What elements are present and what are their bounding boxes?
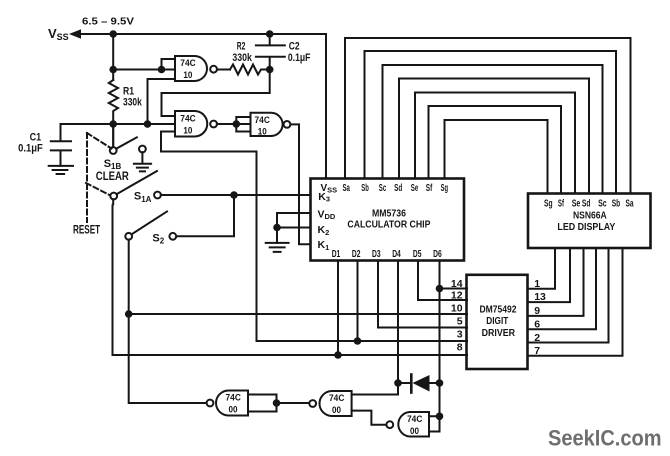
gate U2c 74C00 NAND (mirrored) [398, 412, 429, 437]
label C2 value 0.1uF [288, 52, 311, 64]
label S2 [152, 232, 164, 245]
wire VDD stub to ground node [277, 213, 311, 228]
wire gate1 input line [113, 69, 175, 71]
wire S1A to K3 [161, 194, 311, 196]
svg-text:DIGIT: DIGIT [486, 316, 508, 327]
svg-text:K2: K2 [318, 224, 330, 237]
svg-text:3: 3 [457, 329, 463, 341]
wire gate1 bottom input to 124-rail [148, 79, 176, 124]
gate U1c 74C10 NAND [251, 113, 283, 136]
diode D1 blanking [410, 375, 413, 393]
svg-text:Se: Se [572, 198, 581, 210]
node junction R1/gate input [109, 66, 117, 74]
node VSS label [48, 26, 69, 42]
node junction VSS/R1 [109, 30, 117, 38]
svg-text:Sb: Sb [612, 198, 620, 210]
svg-text:10: 10 [451, 303, 463, 315]
wire U2c input wrap to D6 [429, 416, 440, 431]
gate U1b 74C10 NAND [175, 111, 207, 137]
svg-text:10: 10 [183, 70, 192, 80]
switch S1B blade [116, 137, 137, 149]
svg-text:14: 14 [451, 278, 463, 290]
wire S2 riser [176, 195, 234, 236]
wire K2 stub [277, 228, 311, 243]
wire pin3 rail [257, 340, 468, 342]
wire segment loop Sc [383, 65, 603, 194]
label CLEAR [96, 169, 129, 183]
wire pin14 stub [440, 288, 468, 290]
svg-text:Sa: Sa [626, 198, 634, 210]
svg-text:8: 8 [457, 342, 463, 354]
svg-text:Sf: Sf [558, 198, 564, 210]
node junction S2/pin10 [125, 310, 133, 318]
svg-text:74C: 74C [180, 58, 196, 68]
gate U2a 74C00 NAND (mirrored) [216, 391, 248, 416]
svg-text:SeekIC.com: SeekIC.com [548, 426, 662, 451]
svg-text:74C: 74C [407, 414, 423, 424]
pin numbers right 1 13 9 6 2 7 [534, 278, 546, 357]
wire D3 to pin5 [378, 261, 467, 328]
resistor R1 [109, 80, 118, 147]
label R1 [123, 86, 134, 98]
svg-text:LED DISPLAY: LED DISPLAY [557, 221, 615, 233]
svg-text:74C: 74C [329, 393, 345, 403]
wire U2b out to U2a [277, 402, 310, 404]
svg-text:DM75492: DM75492 [480, 305, 517, 316]
switch S2 pivot [125, 233, 132, 240]
svg-text:D2: D2 [352, 248, 361, 260]
svg-text:CLEAR: CLEAR [96, 169, 129, 183]
svg-text:K1: K1 [318, 239, 330, 252]
wire driver pin13 to LED [528, 248, 571, 302]
wire U2a input wrap [248, 395, 277, 412]
wire D1 [337, 261, 339, 356]
watermark SeekIC.com [548, 426, 662, 451]
svg-text:Sf: Sf [426, 182, 433, 194]
svg-text:74C: 74C [226, 393, 242, 403]
svg-text:D5: D5 [413, 248, 422, 260]
switch S2 throw contact [169, 233, 176, 240]
gate U2c 74C00 output bubble [386, 421, 393, 428]
wire gate3 out to K1 [290, 124, 310, 244]
svg-text:Sg: Sg [441, 182, 448, 194]
svg-text:Sc: Sc [598, 198, 607, 210]
node junction S1A/S2 [230, 191, 238, 199]
pin numbers left 14 12 10 5 3 8 [451, 278, 463, 354]
svg-text:Sg: Sg [544, 198, 553, 210]
wire driver pin9 to LED [528, 248, 584, 316]
node junction D6/pin14 [436, 285, 444, 293]
wire U2b input1 to D4 node [352, 383, 398, 395]
label R1 value 330k [123, 97, 142, 109]
svg-text:Sb: Sb [361, 182, 369, 194]
label S1A [134, 191, 152, 204]
wire driver pin6 to LED [528, 248, 597, 329]
switch S1A pivot [110, 193, 117, 200]
wire S1B pivot stem [112, 124, 114, 147]
node junction R2/C2 [266, 66, 274, 74]
wire pin10 rail [129, 313, 467, 315]
label C2 [289, 40, 300, 52]
wire driver pin2 to LED [528, 248, 609, 343]
node junction D6/diode [436, 379, 444, 387]
wire D2 [357, 261, 359, 342]
chip U4 DM75492 digit driver [467, 275, 528, 369]
node junction gate3 tied inputs [233, 120, 241, 128]
wire S1A pivot down to pin8 rail [113, 199, 468, 355]
label R2 value 330k [232, 52, 252, 64]
label R2 [237, 40, 246, 52]
gate U2b 74C00 output bubble [309, 400, 316, 407]
chip U5 NSN66A LED display [528, 194, 651, 249]
label S1B [104, 158, 122, 171]
capacitor C1 [51, 124, 71, 166]
svg-text:10: 10 [183, 126, 192, 136]
node junction 124-rail / S1B branch [109, 120, 117, 128]
svg-text:D3: D3 [372, 248, 381, 260]
svg-text:Sd: Sd [582, 198, 591, 210]
svg-text:00: 00 [229, 405, 238, 415]
wire U2b input2 to U2c out [352, 411, 387, 425]
node junction K2 ground [273, 224, 281, 232]
wire D4 down to gate B input [352, 261, 398, 395]
node junction U2c inputs/D6 [436, 413, 444, 421]
svg-text:S2: S2 [152, 232, 164, 245]
wire gate3 input wrap [236, 117, 250, 132]
wire segment loop Sa [345, 38, 631, 194]
switch S1B pivot [110, 147, 117, 154]
gate U1a 74C10 NAND [175, 56, 207, 81]
svg-text:0.1μF: 0.1μF [18, 142, 43, 154]
svg-text:0.1μF: 0.1μF [288, 52, 311, 64]
svg-text:330k: 330k [232, 52, 252, 64]
wire D5 to pin12 [418, 261, 467, 301]
svg-text:5: 5 [457, 315, 463, 327]
chip U3 MM5736 calculator [311, 179, 465, 261]
svg-text:74C: 74C [180, 114, 196, 124]
svg-text:Sc: Sc [379, 182, 386, 194]
svg-text:330k: 330k [123, 97, 142, 109]
label C1 [30, 132, 41, 144]
wire segment loop Se [415, 93, 575, 194]
svg-text:D4: D4 [392, 248, 401, 260]
svg-text:D6: D6 [433, 248, 442, 260]
wire driver pin1 to LED [528, 248, 556, 289]
label 6.5 - 9.5V [82, 17, 135, 28]
wire segment loop Sd [399, 79, 589, 194]
svg-text:VSS: VSS [48, 26, 69, 42]
ground K2/VDD [266, 243, 289, 252]
switch S1B throw contact [139, 146, 146, 153]
gate U2b 74C00 NAND (mirrored) [320, 391, 352, 416]
linkage dashed vertical RESET [86, 133, 88, 222]
ground S1B [134, 152, 151, 171]
wire driver pin7 to LED [528, 248, 623, 356]
capacitor C2 [256, 34, 285, 70]
wire R1 top branch [112, 34, 114, 80]
ground C1 [49, 166, 73, 174]
svg-text:RESET: RESET [73, 222, 101, 236]
wire gate2 bottom input long feedback [161, 132, 257, 342]
svg-text:6.5 – 9.5V: 6.5 – 9.5V [82, 17, 135, 28]
node junction gate1 tied inputs [158, 66, 166, 74]
wire segment loop Sg [445, 120, 548, 194]
switch S1A blade [117, 171, 158, 194]
label RESET [73, 222, 101, 236]
wire 124-rail [61, 123, 176, 125]
svg-text:12: 12 [451, 290, 463, 302]
node junction D4/diode [394, 379, 402, 387]
wire segment loop Sf [429, 106, 562, 194]
svg-text:Sa: Sa [343, 182, 350, 194]
svg-text:Se: Se [411, 182, 419, 194]
svg-text:C2: C2 [289, 40, 300, 52]
node junction U2a inputs [273, 399, 281, 407]
node junction D2/pin3 [354, 337, 362, 345]
svg-text:D1: D1 [332, 248, 341, 260]
svg-text:DRIVER: DRIVER [482, 328, 516, 339]
node junction gate1 input on 124-rail [144, 120, 152, 128]
power VSS arrow [69, 29, 81, 39]
wire gate1 input wrap [162, 59, 176, 70]
wire VSS rail [79, 34, 326, 179]
svg-text:CALCULATOR CHIP: CALCULATOR CHIP [347, 218, 430, 230]
svg-text:Sd: Sd [394, 182, 402, 194]
svg-text:00: 00 [410, 426, 419, 436]
linkage dashed to S1A [86, 183, 112, 196]
svg-text:S1A: S1A [134, 191, 152, 204]
wire S2 pivot down to gate A output [129, 240, 207, 403]
svg-text:74C: 74C [255, 115, 271, 125]
resistor R2 [230, 65, 270, 75]
svg-text:00: 00 [332, 405, 341, 415]
switch S2 blade [132, 212, 168, 235]
switch S1A throw contact [154, 192, 161, 199]
wire gate2 out to gate3 [217, 123, 251, 125]
linkage dashed to S1B [87, 133, 112, 149]
svg-text:R2: R2 [237, 40, 246, 52]
wire feedback R2C2 to gate2 [162, 70, 270, 117]
node junction D1/pin8 [334, 351, 342, 359]
wire segment loop Sb [365, 51, 617, 194]
node junction VSS/C2 [266, 30, 274, 38]
gate U2a 74C00 output bubble [207, 400, 214, 407]
wire D6 [439, 261, 441, 432]
svg-text:VDD: VDD [318, 208, 336, 221]
svg-text:NSN66A: NSN66A [573, 209, 607, 221]
svg-text:10: 10 [258, 126, 267, 136]
label C1 value 0.1uF [18, 142, 43, 154]
wire gate1 out to R2 [217, 69, 230, 71]
